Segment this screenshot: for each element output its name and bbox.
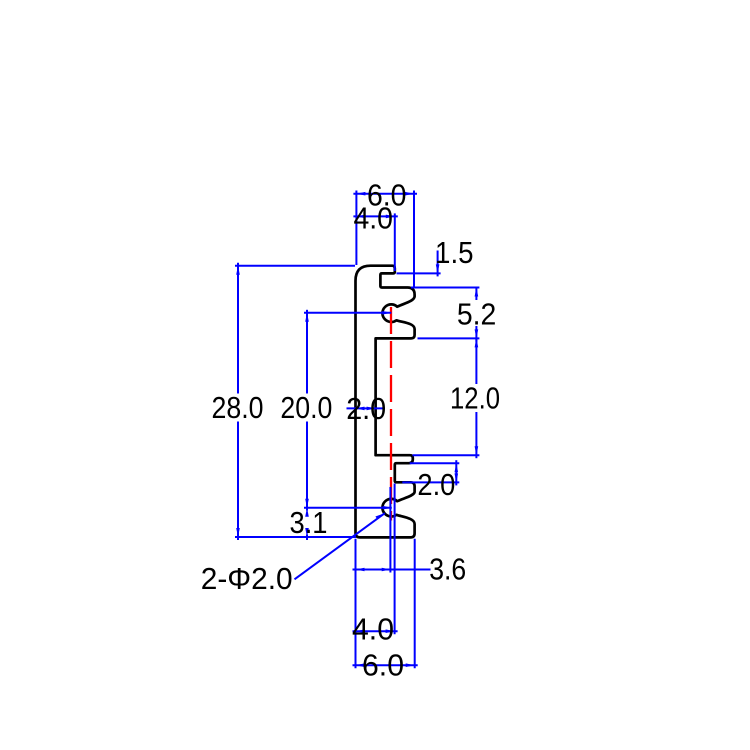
arrowheads 4.0 top bbox=[356, 215, 365, 219]
arrowheads 3.1 bbox=[305, 508, 309, 517]
dim 2.0 left line bbox=[347, 407, 386, 409]
svg-text:3.1: 3.1 bbox=[290, 505, 328, 540]
dim 20.0 line upper part bbox=[306, 310, 308, 394]
dim 3.6 extension right bbox=[389, 487, 391, 573]
svg-text:28.0: 28.0 bbox=[212, 390, 264, 425]
dim 6.0 top line bbox=[353, 193, 417, 195]
arrowheads 3.6 bbox=[356, 568, 365, 572]
svg-text:3.6: 3.6 bbox=[429, 552, 466, 587]
dim 12.0 line upper part bbox=[475, 338, 477, 384]
dim 2.0 right extension upper bbox=[410, 462, 460, 464]
dim 3.6 extension left bbox=[355, 539, 357, 668]
arrowheads 5.2 bbox=[475, 288, 479, 297]
dim 1.5 extension upper bbox=[397, 272, 441, 274]
dim 5.2 line lower part bbox=[475, 326, 477, 342]
svg-text:5.2: 5.2 bbox=[457, 296, 497, 331]
arrowheads 2.0 left bbox=[356, 407, 365, 411]
dim 3.6 line bbox=[353, 569, 431, 571]
svg-text:4.0: 4.0 bbox=[352, 612, 394, 647]
dim 28.0 extension bottom bbox=[235, 536, 356, 538]
leader 2-phi2.0 bbox=[295, 513, 385, 579]
dim 5.2 line upper part bbox=[475, 288, 477, 301]
arrowheads 6.0 bottom bbox=[356, 663, 365, 667]
dim 3.1 line lower part bbox=[306, 535, 308, 541]
dim 4.0 top extension right bbox=[394, 213, 396, 271]
arrowheads 2.0 right bbox=[455, 463, 459, 472]
dim 28.0 line lower part bbox=[237, 422, 239, 541]
dim 20.0 line lower part bbox=[306, 422, 308, 508]
dim 5.2 extension lower / 12.0 upper bbox=[418, 337, 480, 339]
svg-text:6.0: 6.0 bbox=[362, 648, 404, 683]
dim 20.0 extension bottom bbox=[304, 507, 392, 509]
dim 6.0 bottom line bbox=[353, 664, 418, 666]
dim 28.0 line upper part bbox=[237, 263, 239, 394]
arrowhead 1.5 bbox=[436, 264, 440, 273]
svg-text:2.0: 2.0 bbox=[417, 467, 455, 502]
dim 4.0 bottom line bbox=[353, 630, 398, 632]
svg-text:12.0: 12.0 bbox=[450, 381, 500, 416]
arrowhead leader 2-phi2.0 bbox=[375, 513, 384, 519]
dim 3.1 line upper part bbox=[306, 508, 308, 511]
svg-text:2.0: 2.0 bbox=[346, 391, 386, 426]
arrowheads 12.0 bbox=[475, 338, 479, 347]
dim 12.0 line lower part bbox=[475, 412, 477, 458]
dim 4.0 bottom extension right bbox=[394, 484, 396, 635]
dim 20.0 extension top bbox=[304, 312, 391, 314]
dim 28.0 extension top bbox=[235, 265, 355, 267]
svg-text:2-Φ2.0: 2-Φ2.0 bbox=[201, 561, 293, 596]
svg-text:20.0: 20.0 bbox=[280, 390, 332, 425]
dim 6.0 bottom extension right bbox=[414, 539, 416, 668]
arrowheads 28.0 bbox=[236, 266, 240, 275]
dim 1.5 extension lower / 5.2 upper bbox=[411, 287, 479, 289]
dim 4.0 top line bbox=[353, 215, 397, 217]
arrowheads 20.0 bbox=[305, 313, 309, 322]
dim 1.5 leg bbox=[437, 251, 439, 277]
arrowheads 4.0 bottom bbox=[356, 629, 365, 633]
centerline (red dashed) bbox=[390, 307, 392, 521]
profile outline bbox=[356, 266, 415, 538]
dim 6.0 top extension right bbox=[413, 191, 415, 289]
arrowheads 20.0 center marks bbox=[382, 311, 391, 315]
svg-text:4.0: 4.0 bbox=[353, 201, 393, 236]
dim 2.0 right extension lower bbox=[402, 481, 459, 483]
svg-text:1.5: 1.5 bbox=[435, 235, 474, 270]
dim 6.0 top extension left bbox=[355, 191, 357, 266]
dim 12.0 extension lower bbox=[413, 454, 480, 456]
arrowheads 6.0 top bbox=[356, 192, 365, 196]
dim 2.0 right line bbox=[455, 460, 457, 485]
